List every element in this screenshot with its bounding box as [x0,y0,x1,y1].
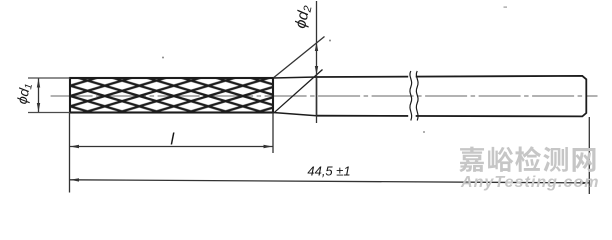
dimension 44,5: arrow right [580,181,589,184]
dimension phi-d2: arrow up [315,42,318,51]
knurled section body [70,78,273,113]
dimension 44,5: arrow left [70,178,79,181]
break line left (wavy) [410,71,412,121]
center line (axis, dash-dot) [51,95,598,97]
dimension phi-d2: vertical line L3 [316,1,318,123]
dimension l: arrow left [70,145,79,148]
dimension phi-d1: arrow down [37,103,40,112]
dimension phi-d1: arrow up [37,79,40,88]
dimension l: arrow right [264,145,273,148]
dimension phi-d1: extension lines [28,77,70,79]
dimension phi-d2: leader L1 [274,37,325,78]
speck dash 4 [504,7,508,8]
shaft body (d2) [317,76,587,117]
taper diagonal [275,70,323,113]
svg-text:44,5 ±1: 44,5 ±1 [307,163,350,178]
speck dot 2 [423,131,425,133]
taper transition [273,77,317,116]
watermark chinese [459,146,595,172]
dimension phi-d2: arrow down [315,66,318,75]
dimension l: extension line right [272,113,274,154]
dimension l: dimension line [70,146,273,148]
break gap mask [408,75,416,117]
speck dot 1 [162,57,164,59]
extension line right for 44,5 [588,117,590,194]
dimension phi-d1: dimension line [38,79,40,113]
speck dot 3 [329,40,331,42]
dimension 44,5: dimension line [70,180,589,183]
extension line left (shared by l and 44,5) [69,113,71,193]
svg-text:AnyTesting.com: AnyTesting.com [460,174,599,191]
knurled section outline [70,78,273,113]
break line right (wavy) [416,71,418,121]
